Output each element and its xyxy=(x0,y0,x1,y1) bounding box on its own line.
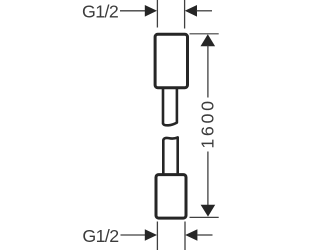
arrowhead bottom pointing left xyxy=(185,229,197,241)
hose lower segment xyxy=(163,137,177,173)
extension line bottom-left xyxy=(156,222,158,250)
dimension line 1600 upper part xyxy=(207,46,209,98)
svg-text:G1/2: G1/2 xyxy=(82,1,118,21)
arrowhead top pointing right xyxy=(145,5,157,17)
extension line bottom-right xyxy=(184,222,186,250)
extension line right top (1600) xyxy=(190,33,219,35)
connector body top xyxy=(155,34,187,87)
svg-text:G1/2: G1/2 xyxy=(82,226,118,246)
connector body bottom xyxy=(156,175,186,219)
arrowhead 1600 pointing up xyxy=(201,34,216,46)
leader line bottom-right xyxy=(197,234,213,236)
arrowhead bottom pointing right xyxy=(145,229,157,241)
hose upper segment xyxy=(163,88,177,125)
arrowhead 1600 pointing down xyxy=(201,205,216,217)
leader line top-right xyxy=(197,10,213,12)
svg-text:1600: 1600 xyxy=(198,98,218,148)
extension line top-left xyxy=(156,0,158,28)
extension line top-right xyxy=(184,0,186,29)
dimension line 1600 lower part xyxy=(207,152,209,206)
extension line right bottom (1600) xyxy=(190,216,219,218)
arrowhead top pointing left xyxy=(185,5,197,17)
leader line bottom-left xyxy=(121,234,148,236)
leader line top-left xyxy=(120,10,147,12)
